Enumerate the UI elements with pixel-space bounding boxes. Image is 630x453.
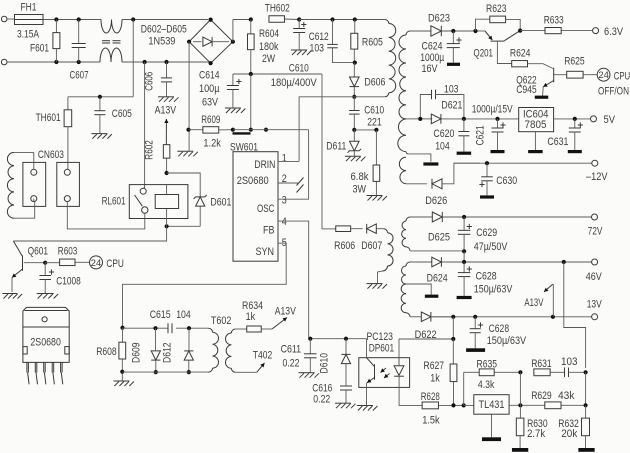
svg-text:R628: R628 bbox=[421, 391, 440, 403]
op-amp U3 IC604 7805 regulator bbox=[519, 108, 554, 151]
ground bar for R632 bbox=[578, 448, 594, 452]
svg-text:R604: R604 bbox=[259, 28, 279, 40]
svg-text:C620: C620 bbox=[433, 128, 454, 140]
svg-text:20k: 20k bbox=[561, 428, 577, 440]
wire bridge DC+ riser bbox=[233, 20, 251, 42]
svg-text:R605: R605 bbox=[362, 37, 383, 49]
wire pin1 DRIN bbox=[278, 160, 299, 162]
svg-text:C628: C628 bbox=[489, 323, 510, 335]
svg-text:104: 104 bbox=[435, 141, 450, 153]
wire pin4 FB riser bbox=[278, 221, 310, 339]
svg-text:TL431: TL431 bbox=[479, 399, 505, 411]
node R627-R628 junction bbox=[451, 403, 465, 407]
transformer T601 core bbox=[398, 12, 401, 340]
svg-text:103: 103 bbox=[444, 83, 459, 95]
resistor R632 20k bbox=[558, 405, 589, 448]
ground bar for R630 bbox=[512, 448, 528, 452]
transistor Q601 bbox=[12, 241, 48, 292]
ground for C610 bbox=[291, 50, 312, 55]
diode D606 bbox=[350, 63, 386, 97]
svg-text:1k: 1k bbox=[246, 311, 256, 323]
capacitor C610 180u/400V bulk bbox=[271, 20, 318, 90]
wire pin5 SYN path bbox=[123, 243, 287, 328]
svg-text:R629: R629 bbox=[531, 390, 552, 402]
svg-text:D610: D610 bbox=[319, 353, 331, 374]
capacitor C606 bbox=[144, 60, 173, 97]
svg-text:R623: R623 bbox=[486, 3, 507, 15]
ground for C605 bbox=[91, 134, 112, 139]
svg-text:Q601: Q601 bbox=[28, 246, 48, 258]
svg-text:D609: D609 bbox=[131, 343, 143, 364]
wire startup node bbox=[233, 74, 322, 229]
resistor R635 4.3k bbox=[464, 359, 521, 406]
svg-text:T402: T402 bbox=[253, 350, 272, 362]
bridge rectifier D602-D605 1N539 bbox=[141, 18, 235, 66]
svg-text:C612: C612 bbox=[309, 31, 329, 43]
ground for aux winding bbox=[367, 284, 388, 289]
capacitor C630 bbox=[479, 161, 517, 195]
svg-text:24: 24 bbox=[598, 70, 609, 81]
capacitor C611 0.22 bbox=[281, 339, 317, 373]
svg-text:R635: R635 bbox=[477, 359, 498, 371]
node 46V output terminal bbox=[586, 259, 603, 283]
svg-text:A13V: A13V bbox=[524, 297, 543, 309]
svg-text:A13V: A13V bbox=[275, 306, 297, 318]
node A13V switch arrow bbox=[272, 306, 296, 330]
resistor R602 bbox=[144, 130, 170, 173]
capacitor C624 1000u 16V bbox=[420, 31, 461, 75]
wire 72V rail bbox=[462, 215, 592, 219]
wire 5V input row bbox=[420, 118, 518, 120]
svg-text:C606: C606 bbox=[144, 72, 156, 91]
svg-text:72V: 72V bbox=[588, 226, 603, 238]
ground bar for winding 2 tap bbox=[423, 162, 438, 165]
pin 4 label bbox=[282, 216, 287, 228]
wire OSC node bbox=[231, 128, 309, 134]
wire drop to C605 bus bbox=[68, 20, 133, 97]
svg-text:D624: D624 bbox=[427, 273, 448, 285]
svg-text:C629: C629 bbox=[476, 227, 497, 239]
resistor R633 bbox=[520, 15, 592, 34]
ground bar for TL431 bbox=[482, 437, 501, 441]
capacitor C628 150u/63V (13V) bbox=[470, 317, 527, 349]
wire 13V to R627 bbox=[451, 317, 455, 364]
wire 46V rail bbox=[462, 260, 592, 264]
node relay coil top bbox=[165, 171, 169, 175]
ground bar for C628 13V bbox=[466, 348, 485, 352]
inductor L601 line filter choke bbox=[100, 20, 122, 63]
wire pin3 OSC riser bbox=[278, 130, 309, 200]
svg-text:R624: R624 bbox=[510, 48, 531, 60]
svg-text:150µ/63V: 150µ/63V bbox=[487, 335, 527, 347]
svg-text:CN603: CN603 bbox=[38, 149, 64, 161]
resistor R630 2.7k bbox=[516, 405, 547, 448]
ground for C616 bbox=[335, 403, 356, 408]
svg-text:A13V: A13V bbox=[155, 105, 177, 117]
svg-text:Q201: Q201 bbox=[474, 48, 494, 60]
ground bar for IC604 bbox=[528, 150, 543, 153]
ground for optocoupler bbox=[357, 406, 378, 411]
svg-text:C945: C945 bbox=[516, 84, 537, 96]
capacitor C615 104 bbox=[150, 309, 191, 333]
svg-text:1: 1 bbox=[282, 153, 287, 165]
ground bar for C628 46V bbox=[457, 296, 472, 299]
wire C615 row bbox=[123, 327, 209, 329]
capacitor C614 100u 63V bbox=[199, 69, 242, 108]
svg-text:104: 104 bbox=[176, 309, 191, 321]
svg-text:100µ: 100µ bbox=[199, 83, 220, 95]
resistor R606 bbox=[322, 226, 363, 252]
supply arrow A13V to R602 bbox=[155, 105, 177, 145]
svg-text:2S0680: 2S0680 bbox=[237, 175, 269, 187]
svg-text:3: 3 bbox=[282, 195, 287, 207]
ground for C606 bbox=[158, 97, 179, 102]
svg-text:DRIN: DRIN bbox=[254, 159, 275, 171]
svg-text:7805: 7805 bbox=[525, 119, 547, 131]
ground bar for C624 bbox=[447, 63, 460, 66]
inductor degaussing coil bbox=[7, 152, 34, 218]
relay RL601 bbox=[102, 185, 188, 219]
svg-text:5V: 5V bbox=[604, 114, 616, 126]
svg-text:180µ/400V: 180µ/400V bbox=[271, 77, 318, 89]
fuse FH1 bbox=[15, 2, 44, 41]
svg-text:1N539: 1N539 bbox=[148, 35, 175, 47]
wire opto transistor collector bbox=[366, 339, 368, 358]
svg-text:2.7k: 2.7k bbox=[527, 428, 545, 440]
svg-text:C610: C610 bbox=[289, 62, 309, 74]
capacitor C607 bbox=[70, 17, 89, 81]
svg-text:1.5k: 1.5k bbox=[422, 415, 440, 427]
ground for Q601 emitter bbox=[3, 294, 23, 299]
ground for C614 bbox=[225, 108, 246, 113]
svg-text:0.22: 0.22 bbox=[283, 358, 300, 370]
inductor T601 secondary winding 3 bbox=[399, 157, 427, 184]
node 72V output terminal bbox=[588, 214, 603, 238]
wire neutral drop to relay contact bbox=[143, 62, 144, 188]
node R635-R631 junction bbox=[518, 370, 522, 374]
svg-text:C630: C630 bbox=[496, 175, 517, 187]
thermistor TH601 bbox=[36, 97, 72, 170]
inductor T601 secondary winding 1 bbox=[399, 31, 410, 119]
svg-text:1.2k: 1.2k bbox=[203, 137, 221, 149]
svg-text:T602: T602 bbox=[211, 315, 232, 327]
capacitor C1008 bbox=[39, 263, 80, 294]
node R605-D606 bbox=[353, 61, 357, 65]
resistor R624 bbox=[510, 48, 553, 69]
wire opto LED cathode to R628 bbox=[399, 376, 422, 405]
ground bar for winding 5 tap bbox=[406, 284, 438, 298]
svg-text:16V: 16V bbox=[422, 63, 439, 75]
svg-text:DP601: DP601 bbox=[369, 342, 395, 354]
resistor R604 180k 2W bbox=[248, 20, 280, 75]
op-amp U1 SW601 2S0680 regulator IC bbox=[230, 141, 278, 261]
connector CN603 bbox=[23, 149, 80, 206]
ground for R608 bbox=[113, 381, 133, 386]
svg-text:D621: D621 bbox=[441, 100, 462, 112]
svg-text:C628: C628 bbox=[476, 271, 497, 283]
package drawing 2S0680 (TO-3P) bbox=[23, 307, 69, 384]
svg-text:SYN: SYN bbox=[256, 246, 275, 258]
wire Q601 base bbox=[24, 261, 48, 265]
node T402 switch arrow bbox=[235, 350, 272, 373]
node L: AC live input terminal bbox=[1, 16, 14, 22]
node C624 junction bbox=[451, 29, 455, 33]
node -12V output terminal bbox=[586, 160, 608, 183]
op-amp U2 PC123 DP601 optocoupler bbox=[359, 331, 410, 387]
svg-text:R603: R603 bbox=[58, 246, 78, 258]
resistor R605 bbox=[351, 17, 383, 62]
node Q201 collector bbox=[518, 29, 522, 33]
svg-text:D601: D601 bbox=[210, 197, 231, 209]
node A13V switch bbox=[524, 284, 553, 317]
svg-text:R627: R627 bbox=[424, 360, 445, 372]
svg-text:R631: R631 bbox=[531, 358, 552, 370]
svg-text:C1008: C1008 bbox=[56, 275, 81, 287]
transformer T602 bbox=[209, 315, 236, 374]
wire bridge DC- drop bbox=[188, 42, 190, 152]
ground for C611 bbox=[299, 373, 320, 378]
svg-text:D626: D626 bbox=[425, 195, 447, 207]
svg-text:46V: 46V bbox=[586, 271, 603, 283]
svg-text:D623: D623 bbox=[428, 13, 450, 25]
pin 3 label bbox=[282, 195, 287, 207]
node 103 right junction bbox=[584, 370, 588, 405]
resistor R625 bbox=[564, 56, 597, 79]
svg-text:150µ/63V: 150µ/63V bbox=[474, 284, 513, 296]
svg-text:C605: C605 bbox=[112, 108, 132, 120]
svg-text:C631: C631 bbox=[547, 136, 568, 148]
inductor T601 secondary winding 5 bbox=[401, 262, 432, 317]
resistor 6.8k 3W bbox=[351, 128, 380, 196]
svg-text:C624: C624 bbox=[422, 41, 443, 53]
svg-text:221: 221 bbox=[367, 117, 382, 129]
svg-text:C611: C611 bbox=[281, 344, 302, 356]
svg-text:2S0680: 2S0680 bbox=[30, 336, 61, 348]
wire pin2 stub with no-connect hatch bbox=[278, 178, 304, 193]
node 5V output terminal bbox=[591, 114, 616, 126]
inductor T601 aux winding bbox=[378, 233, 394, 284]
pin 1 label bbox=[282, 153, 287, 165]
svg-text:CPU: CPU bbox=[106, 258, 124, 270]
pin 5 label bbox=[282, 237, 287, 249]
svg-text:1k: 1k bbox=[430, 373, 440, 385]
resistor R609 1.2k bbox=[186, 114, 233, 149]
node C629 bottom bbox=[462, 249, 466, 262]
op-amp U4 TL431 shunt regulator bbox=[464, 395, 509, 438]
resistor R634 1k bbox=[235, 300, 272, 332]
ground bar for C620 bbox=[457, 152, 472, 155]
node 13V output terminal bbox=[587, 299, 603, 320]
diode D621 bbox=[431, 100, 462, 124]
wire bottom row bbox=[122, 371, 208, 373]
svg-text:C614: C614 bbox=[199, 69, 220, 81]
zener diode D611 bbox=[326, 130, 361, 156]
diode D626 bbox=[425, 163, 480, 207]
node 24 CPU (standby control) bbox=[90, 256, 124, 270]
capacitor 103 feedback bbox=[561, 356, 586, 377]
svg-text:C610: C610 bbox=[364, 105, 384, 117]
ground bar for Q622 emitter bbox=[535, 96, 549, 99]
resistor R627 1k bbox=[424, 360, 457, 405]
wire relay to Q601 collector bbox=[13, 226, 166, 241]
svg-text:C615: C615 bbox=[150, 309, 171, 321]
resistor R608 bbox=[96, 326, 126, 381]
wire drain (primary bottom to DRIN pin) bbox=[299, 97, 385, 162]
svg-text:3W: 3W bbox=[353, 184, 367, 196]
ground for 6.8k resistor bbox=[367, 196, 388, 201]
svg-text:R625: R625 bbox=[564, 56, 585, 68]
transistor Q201 bbox=[474, 31, 521, 64]
svg-text:103: 103 bbox=[310, 42, 325, 54]
svg-text:C621: C621 bbox=[474, 125, 486, 145]
resistor R623 bbox=[476, 3, 521, 31]
svg-text:D612: D612 bbox=[161, 343, 173, 364]
inductor T601 secondary winding 2 bbox=[398, 119, 431, 162]
svg-text:R608: R608 bbox=[96, 346, 117, 358]
svg-text:180k: 180k bbox=[259, 41, 279, 53]
capacitor C631 bbox=[547, 117, 583, 150]
ground bar for C630 bbox=[480, 195, 494, 198]
svg-text:TH602: TH602 bbox=[265, 3, 290, 15]
capacitor C629 47u/50V bbox=[458, 217, 508, 253]
node R604 bottom bbox=[249, 72, 253, 76]
node R623 left bbox=[473, 29, 477, 33]
svg-text:4: 4 bbox=[282, 216, 287, 228]
node D611 junction bbox=[352, 128, 376, 132]
svg-text:43k: 43k bbox=[558, 390, 575, 402]
wire neutral to bridge bbox=[122, 61, 211, 63]
ground for D611 bbox=[345, 156, 366, 161]
svg-text:FB: FB bbox=[263, 225, 275, 237]
svg-text:R609: R609 bbox=[201, 114, 220, 126]
node relay coil bottom bbox=[165, 209, 169, 229]
wire opto transistor emitter to ground bbox=[366, 383, 368, 406]
capacitor 103 bypass bbox=[418, 83, 466, 121]
wire R604 node drop bbox=[250, 74, 252, 130]
svg-text:CPU: CPU bbox=[614, 71, 630, 83]
capacitor C605 bbox=[94, 95, 131, 134]
diode D601 bbox=[167, 173, 232, 226]
node DC+ at C610 bbox=[297, 17, 301, 21]
resistor R631 bbox=[531, 358, 564, 376]
svg-text:D611: D611 bbox=[326, 141, 346, 153]
diode D622 bbox=[415, 312, 454, 341]
capacitor C616 0.22 bbox=[312, 382, 352, 405]
wire 5V output2 bbox=[554, 118, 591, 120]
wire CN603 to relay contact bbox=[67, 202, 145, 229]
svg-text:OSC: OSC bbox=[257, 203, 275, 215]
svg-text:D622: D622 bbox=[415, 329, 437, 341]
svg-text:R602: R602 bbox=[144, 140, 156, 160]
svg-text:C607: C607 bbox=[70, 70, 89, 82]
capacitor C628 150u/63V (46V) bbox=[458, 262, 513, 296]
inductor T601 secondary winding 4 bbox=[402, 217, 464, 251]
resistor F601 bbox=[30, 17, 60, 64]
svg-text:63V: 63V bbox=[202, 97, 219, 109]
diode D625 bbox=[428, 212, 464, 244]
svg-text:24: 24 bbox=[91, 258, 102, 269]
diode D623 bbox=[410, 13, 476, 37]
node hot-bus junction bbox=[131, 17, 135, 21]
svg-text:6.3V: 6.3V bbox=[604, 26, 624, 38]
svg-text:–12V: –12V bbox=[586, 171, 608, 183]
transistor Q622 C945 bbox=[516, 68, 567, 96]
svg-text:4.3k: 4.3k bbox=[478, 379, 495, 391]
diode D610 bbox=[319, 339, 351, 386]
ground hot-ground (bridge negative) bbox=[177, 151, 198, 156]
capacitor C610 221 bbox=[349, 97, 384, 130]
wire -12V rail bbox=[454, 162, 592, 164]
node neutral junction bbox=[143, 60, 147, 64]
wire FB node row bbox=[308, 337, 366, 341]
wire opto LED anode bbox=[399, 339, 453, 366]
svg-text:F601: F601 bbox=[30, 43, 49, 55]
diode D607 bbox=[361, 224, 387, 252]
svg-text:1000µ/15V: 1000µ/15V bbox=[472, 104, 514, 116]
svg-text:R606: R606 bbox=[334, 240, 355, 252]
svg-text:3.15A: 3.15A bbox=[17, 29, 40, 41]
svg-text:R633: R633 bbox=[544, 15, 564, 27]
node N: AC neutral input terminal bbox=[1, 59, 100, 65]
svg-text:D607: D607 bbox=[361, 240, 382, 252]
inductor T601 primary winding bbox=[385, 24, 396, 97]
svg-text:103: 103 bbox=[561, 356, 578, 368]
svg-text:D625: D625 bbox=[428, 232, 450, 244]
ground bar for C621 bbox=[491, 150, 505, 153]
svg-text:2W: 2W bbox=[262, 53, 275, 65]
resistor R628 1.5k bbox=[421, 391, 464, 427]
ground for C1008 bbox=[37, 294, 58, 299]
svg-text:6.8k: 6.8k bbox=[351, 171, 369, 183]
svg-text:0.22: 0.22 bbox=[313, 393, 330, 405]
node winding tap D621 bbox=[406, 118, 420, 120]
diode D612 bbox=[161, 326, 193, 374]
svg-text:RL601: RL601 bbox=[102, 196, 126, 208]
capacitor C621 1000u/15V bbox=[472, 104, 514, 150]
pin 2 label bbox=[282, 173, 287, 185]
diode D624 bbox=[427, 257, 465, 284]
wire 6.3V input bbox=[476, 30, 486, 32]
wire R629 row bbox=[509, 372, 588, 407]
svg-text:47µ/50V: 47µ/50V bbox=[474, 241, 508, 253]
resistor R629 43k bbox=[531, 390, 575, 409]
ground bar for C631 bbox=[568, 150, 582, 153]
svg-text:D602–D605: D602–D605 bbox=[141, 24, 187, 36]
capacitor C620 104 bbox=[433, 119, 469, 153]
svg-text:D606: D606 bbox=[364, 77, 385, 89]
thermistor TH602 bbox=[249, 3, 300, 23]
wire hot bus to bridge bbox=[43, 19, 208, 21]
wire DC+ bus to primary bbox=[299, 20, 389, 24]
node 6.3V output terminal bbox=[593, 26, 624, 38]
node 24 CPU OFF/ON bbox=[597, 68, 630, 97]
resistor R603 bbox=[45, 246, 89, 266]
node drain wire bbox=[352, 95, 356, 99]
svg-text:TH601: TH601 bbox=[36, 112, 61, 124]
svg-text:FH1: FH1 bbox=[21, 2, 37, 14]
wire 46V drop to feedback divider bbox=[564, 262, 586, 368]
diode D609 bbox=[131, 326, 161, 374]
capacitor C612 103 snubber bbox=[309, 17, 355, 62]
wire 13V rail bbox=[431, 315, 592, 319]
svg-text:OFF/ON: OFF/ON bbox=[598, 85, 629, 97]
svg-text:13V: 13V bbox=[587, 299, 603, 311]
